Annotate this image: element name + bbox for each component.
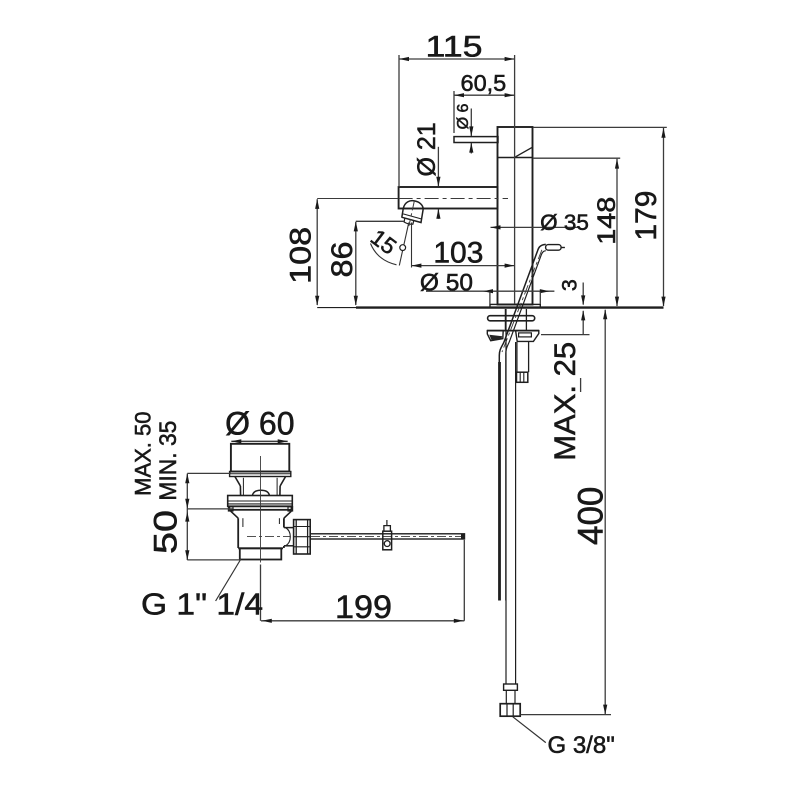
dim dia6 line: [470, 109, 472, 137]
countertop line: [317, 307, 356, 309]
pop-up cap: [231, 444, 289, 472]
svg-text:Ø 50: Ø 50: [420, 269, 473, 296]
pull rod: [310, 534, 464, 539]
plug neck: [239, 486, 241, 496]
hose ferrule: [504, 684, 518, 690]
svg-text:Ø 21: Ø 21: [413, 122, 441, 176]
G3/8 leader: [513, 717, 546, 743]
dim 86 line: [355, 222, 357, 305]
dim 179 extension top: [533, 126, 667, 128]
dim 115 left extension: [398, 55, 400, 187]
G3/8 nut: [500, 704, 520, 717]
plug taper: [235, 477, 241, 487]
shank sides: [504, 309, 506, 330]
svg-text:G 1" 1/4: G 1" 1/4: [141, 587, 263, 622]
faucet body cap joint line: [498, 157, 533, 159]
max25 text tail: [580, 378, 582, 392]
svg-text:148: 148: [593, 197, 621, 245]
dia60 dim line: [231, 440, 287, 442]
barrel bottom: [238, 547, 283, 549]
svg-text:MAX. 25: MAX. 25: [549, 342, 582, 461]
aerator ring tab: [404, 218, 414, 224]
hose A outer wall: [499, 244, 546, 600]
dim 108 line: [316, 199, 318, 305]
sink flange: [228, 496, 293, 507]
svg-text:115: 115: [426, 31, 483, 64]
hose B walls: [505, 309, 507, 684]
faucet body: [498, 127, 533, 305]
dim 115 line: [399, 58, 515, 60]
nozzle axis centerline: [409, 201, 415, 226]
dim 60,5 line: [454, 94, 515, 96]
cap rolled lip: [230, 472, 291, 477]
svg-text:400: 400: [572, 487, 611, 545]
dim 400 bottom extension: [521, 714, 612, 716]
svg-text:Ø 60: Ø 60: [225, 406, 294, 442]
base flange: [490, 304, 540, 307]
waste barrel: [237, 518, 239, 548]
pivot dome: [252, 490, 269, 495]
svg-text:MAX. 50: MAX. 50: [131, 412, 156, 496]
dim 148 line: [616, 159, 618, 306]
dim 199: left ext (drain axis continuation): [260, 565, 262, 621]
outlet hex nut: [294, 520, 311, 554]
lever rod: [454, 137, 498, 143]
body shoulders: [231, 511, 239, 518]
dim 60,5 left extension: [453, 91, 455, 133]
mounting nut: [487, 330, 539, 332]
svg-text:G 3/8": G 3/8": [548, 732, 615, 759]
washer under counter: [488, 316, 535, 321]
side outlet stub: [284, 527, 294, 529]
svg-text:199: 199: [335, 589, 392, 625]
hose A inner wall: [506, 251, 546, 601]
15deg arc: [371, 244, 397, 265]
rod coupling block: [383, 531, 392, 550]
dia35 leader: [491, 226, 579, 228]
dim 3 upper: [582, 283, 584, 305]
svg-text:Ø 6: Ø 6: [455, 104, 472, 130]
hose A vertical thick wall: [498, 362, 501, 601]
dim 3 lower / max25 top: [582, 311, 584, 335]
aerator inner line: [403, 214, 422, 219]
dia50 extensions: [489, 292, 491, 304]
flexible hose A end fitting: [546, 245, 562, 251]
dim 103 line: [411, 265, 514, 267]
dim 148 extension top: [533, 157, 620, 159]
dim dia21 line: [437, 147, 439, 187]
svg-text:103: 103: [433, 237, 483, 270]
hose below ferrule: [505, 690, 507, 703]
dim dia50 line: [426, 290, 554, 292]
svg-text:86: 86: [326, 242, 359, 278]
max25 bottom extension: [541, 334, 590, 336]
hose A centerline: [502, 250, 542, 352]
dim 199 right ext: [463, 540, 465, 621]
faucet handle chamfer: [516, 147, 533, 157]
G 1 1/4 leader: [216, 560, 241, 601]
left dim line (max50/min35 + 50): [186, 474, 188, 560]
spout tube: [399, 187, 498, 209]
bottom ring: [240, 548, 281, 559]
dim 179 line: [663, 128, 665, 306]
outlet axis dash: [247, 535, 290, 537]
spout centerline: [317, 198, 398, 200]
svg-text:3: 3: [558, 279, 582, 291]
extension lines: [187, 472, 231, 474]
svg-text:108: 108: [285, 227, 318, 284]
dim 400 line: [604, 310, 606, 714]
svg-text:179: 179: [630, 191, 663, 241]
dim 86 extension: [356, 220, 404, 222]
flange gasket: [229, 506, 291, 510]
threaded stud: [516, 342, 518, 372]
svg-text:MIN. 35: MIN. 35: [155, 421, 182, 501]
stud end nut: [517, 372, 528, 382]
dim 199 line: [261, 620, 464, 622]
aerator nozzle (15 deg tilt): [402, 201, 423, 223]
svg-text:50: 50: [148, 510, 184, 554]
dim 115/60,5 right extension / faucet axis: [514, 55, 516, 304]
15deg vertex circle: [400, 245, 406, 251]
drain axis centerline: [260, 456, 262, 563]
svg-text:60,5: 60,5: [461, 70, 507, 96]
svg-text:Ø 35: Ø 35: [540, 210, 589, 235]
15deg vertical reference: [411, 223, 413, 268]
